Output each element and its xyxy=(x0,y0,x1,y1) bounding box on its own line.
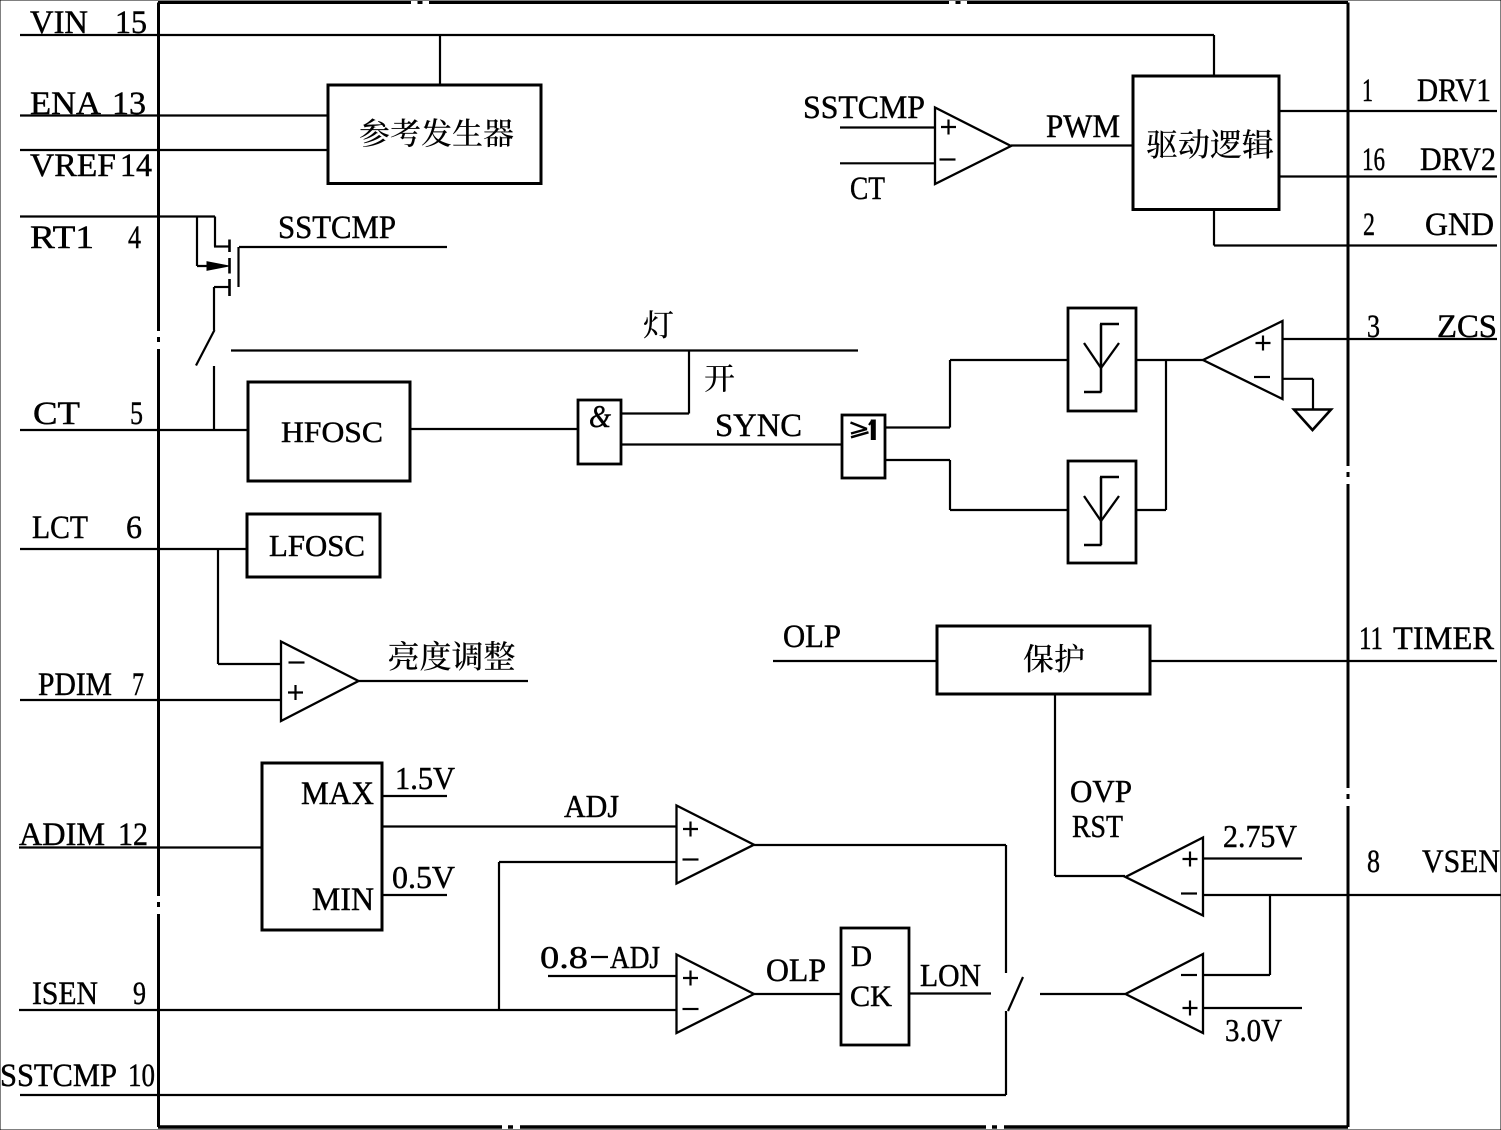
pin 2 GND label xyxy=(1363,207,1494,243)
wire VSEN to UVP comparator minus xyxy=(1203,895,1270,975)
wire LCT to PDIM comparator xyxy=(218,549,282,664)
wire OR gate to one-shot B xyxy=(885,460,1068,510)
svg-text:0.8: 0.8 xyxy=(540,939,588,975)
pin 9 ISEN label xyxy=(32,976,146,1012)
switch S1 (RT1 to CT) xyxy=(196,287,215,430)
svg-text:LFOSC: LFOSC xyxy=(269,528,365,563)
svg-text:PDIM: PDIM xyxy=(38,667,112,703)
wire protection to OVP comparator xyxy=(1055,694,1125,876)
wire 0.8-ADJ reference stub xyxy=(548,975,676,977)
pin 9 ISEN lead wire xyxy=(19,1009,676,1011)
svg-text:SSTCMP: SSTCMP xyxy=(278,210,396,246)
wire ZCS comparator minus to ground xyxy=(1283,379,1314,410)
wire AND gate to lamp line xyxy=(621,351,689,414)
svg-text:DRV1: DRV1 xyxy=(1417,73,1491,109)
svg-text:0.5V: 0.5V xyxy=(392,859,455,895)
value 2.75V label xyxy=(1223,818,1297,854)
gate U4 OR (>=1) xyxy=(842,415,885,478)
ground xyxy=(1294,410,1331,431)
svg-text:2: 2 xyxy=(1363,207,1375,243)
block U2 HFOSC oscillator xyxy=(248,382,410,481)
net SSTCMP label (PWM comparator input) xyxy=(803,90,925,126)
svg-text:LCT: LCT xyxy=(32,510,88,546)
pin 5 CT label xyxy=(33,396,143,432)
wire OLP to protection block xyxy=(773,660,937,662)
op-amp U10 PWM comparator xyxy=(935,108,1011,185)
net OLP label (protection input) xyxy=(783,619,841,655)
svg-text:OLP: OLP xyxy=(766,953,826,989)
value 0.8-ADJ label xyxy=(540,939,660,975)
pin 2 GND lead wire xyxy=(1214,210,1497,246)
pin 11 TIMER lead wire xyxy=(1150,660,1497,662)
gate U3 AND (&) xyxy=(578,398,621,464)
IC boundary bottom (dash-dot) xyxy=(158,1125,1348,1129)
value 3.0V label xyxy=(1225,1012,1282,1048)
block U11 drive logic (驱动逻辑) xyxy=(1133,76,1279,210)
wire SYNC xyxy=(621,443,842,445)
svg-text:CK: CK xyxy=(850,980,892,1013)
pin 12 ADIM lead wire xyxy=(19,846,262,848)
pin 8 VSEN lead wire xyxy=(1203,894,1501,896)
svg-text:MAX: MAX xyxy=(301,776,374,812)
svg-text:ISEN: ISEN xyxy=(32,976,98,1012)
wire VIN to drive logic xyxy=(1213,35,1215,76)
svg-text:SSTCMP: SSTCMP xyxy=(803,90,925,126)
svg-text:OVP: OVP xyxy=(1070,773,1132,809)
svg-text:7: 7 xyxy=(132,667,144,703)
wire LON xyxy=(909,992,991,994)
net on label (开) xyxy=(705,364,734,392)
pin 16 DRV2 lead wire xyxy=(1279,175,1497,177)
pin 10 SSTCMP lead wire xyxy=(20,1094,1006,1096)
pin 11 TIMER label xyxy=(1359,621,1494,657)
wire SSTCMP stub (RT1) xyxy=(239,246,447,248)
flip-flop U18 D/CK latch xyxy=(841,928,909,1045)
wire ADJ to comparator xyxy=(382,825,676,827)
wire ISEN to ADJ comparator minus xyxy=(499,862,676,1010)
svg-text:1: 1 xyxy=(1362,73,1373,109)
svg-text:3.0V: 3.0V xyxy=(1225,1012,1282,1048)
svg-text:CT: CT xyxy=(33,396,80,432)
svg-text:5: 5 xyxy=(130,396,143,432)
net PWM label xyxy=(1046,109,1120,145)
op-amp U14 UVP comparator xyxy=(1126,954,1204,1033)
wire 0.5V stub xyxy=(382,894,447,896)
svg-text:RST: RST xyxy=(1072,808,1123,844)
svg-text:VREF: VREF xyxy=(30,148,116,184)
pin 13 ENA label xyxy=(30,86,146,122)
op-amp U13 OVP comparator xyxy=(1126,838,1204,916)
svg-text:14: 14 xyxy=(120,148,152,184)
value 1.5V label xyxy=(395,760,455,796)
svg-text:RT1: RT1 xyxy=(30,220,94,256)
svg-text:MIN: MIN xyxy=(312,882,374,918)
svg-text:SYNC: SYNC xyxy=(715,408,802,444)
net SYNC label xyxy=(715,408,802,444)
op-amp U16 ADJ comparator xyxy=(677,806,755,884)
block U8 LFOSC oscillator xyxy=(247,514,380,577)
IC boundary top (dash-dot) xyxy=(158,1,1348,4)
pin 13 ENA lead wire xyxy=(20,114,328,116)
pin 14 VREF lead wire xyxy=(20,149,328,151)
wire PWM to drive logic xyxy=(1011,144,1133,146)
net CT label (PWM comparator input) xyxy=(850,171,885,207)
svg-text:LON: LON xyxy=(920,957,981,993)
wire SSTCMP to PWM comparator plus xyxy=(840,126,935,128)
node SSTCMP label (RT1) xyxy=(278,210,396,246)
wire HFOSC to AND gate xyxy=(410,428,578,430)
pin 6 LCT lead wire xyxy=(20,548,247,550)
svg-text:&: & xyxy=(589,398,611,434)
wire OLP to flip-flop xyxy=(754,993,841,995)
block U12 protection (保护) xyxy=(937,626,1150,694)
svg-text:PWM: PWM xyxy=(1046,109,1120,145)
svg-text:8: 8 xyxy=(1367,844,1380,880)
svg-text:ADJ: ADJ xyxy=(564,788,619,824)
block U1 reference generator (参考发生器) xyxy=(328,85,541,184)
svg-text:SSTCMP: SSTCMP xyxy=(0,1058,117,1094)
wire 2.75V reference stub xyxy=(1203,857,1302,859)
block U5 one-shot A xyxy=(1068,308,1136,411)
pin 4 RT1 label xyxy=(30,220,141,256)
pin 3 ZCS lead wire xyxy=(1283,338,1498,340)
pin 1 DRV1 label xyxy=(1362,73,1491,109)
svg-text:9: 9 xyxy=(133,976,146,1012)
wire 3.0V reference stub xyxy=(1203,1007,1302,1009)
pin 6 LCT label xyxy=(32,510,142,546)
op-amp U9 PDIM comparator xyxy=(281,642,359,722)
switch S2 (latch-off) xyxy=(1006,977,1023,1095)
wire one-shots to ZCS comparator output xyxy=(1136,360,1203,510)
net brightness-adjust label (亮度调整) xyxy=(389,641,515,671)
net ADJ label xyxy=(564,788,619,824)
svg-text:11: 11 xyxy=(1359,621,1383,657)
pin 5 CT lead wire xyxy=(20,429,248,431)
svg-text:1.5V: 1.5V xyxy=(395,760,455,796)
svg-text:TIMER: TIMER xyxy=(1393,621,1494,657)
svg-text:HFOSC: HFOSC xyxy=(281,416,383,449)
op-amp U7 ZCS comparator xyxy=(1203,321,1283,399)
pin 7 PDIM label xyxy=(38,667,144,703)
pin 15 VIN lead wire xyxy=(20,34,1214,36)
svg-text:10: 10 xyxy=(128,1058,155,1094)
pin 12 ADIM label xyxy=(19,817,148,853)
net LON label xyxy=(920,957,981,993)
pin 14 VREF label xyxy=(30,148,152,184)
wire ADJ comparator output to switch S2 xyxy=(754,845,1006,973)
svg-text:ADJ: ADJ xyxy=(610,939,660,975)
pin 15 VIN label xyxy=(30,5,147,41)
svg-text:DRV2: DRV2 xyxy=(1420,142,1496,178)
op-amp U17 OLP comparator xyxy=(677,955,755,1034)
svg-text:GND: GND xyxy=(1425,207,1494,243)
wire brightness-adjust output xyxy=(359,680,529,682)
pin 1 DRV1 lead wire xyxy=(1279,110,1497,112)
block U15 MAX/MIN limiter xyxy=(262,763,382,930)
wire UVP comparator output xyxy=(1040,993,1125,995)
net OLP label (comparator output) xyxy=(766,953,826,989)
transistor Q1 (RT1 soft-start MOSFET) xyxy=(197,217,239,297)
svg-text:2.75V: 2.75V xyxy=(1223,818,1297,854)
block U6 one-shot B xyxy=(1068,461,1136,563)
pin 10 SSTCMP label xyxy=(0,1058,155,1094)
pin 3 ZCS label xyxy=(1367,309,1497,345)
wire VIN to reference generator xyxy=(439,35,441,85)
svg-text:16: 16 xyxy=(1362,142,1385,178)
wire CT to PWM comparator minus xyxy=(840,162,935,164)
pin 4 RT1 lead wire xyxy=(20,215,215,217)
wire lamp line xyxy=(231,349,858,351)
wire OR gate to one-shot A xyxy=(885,360,1068,428)
svg-text:VSEN: VSEN xyxy=(1422,844,1500,880)
svg-text:CT: CT xyxy=(850,171,885,207)
IC boundary right (dash-dot) xyxy=(1347,3,1350,1128)
net lamp label (灯) xyxy=(644,310,673,338)
net OVP RST label xyxy=(1070,773,1132,844)
svg-text:D: D xyxy=(851,940,872,973)
value 0.5V label xyxy=(392,859,455,895)
pin 7 PDIM lead wire xyxy=(20,699,282,701)
svg-text:6: 6 xyxy=(126,510,142,546)
pin 16 DRV2 label xyxy=(1362,142,1496,178)
IC boundary left (dash-dot) xyxy=(157,3,160,1128)
pin 8 VSEN label xyxy=(1367,844,1500,880)
svg-text:4: 4 xyxy=(128,220,141,256)
wire 1.5V stub xyxy=(382,795,447,797)
svg-text:OLP: OLP xyxy=(783,619,841,655)
